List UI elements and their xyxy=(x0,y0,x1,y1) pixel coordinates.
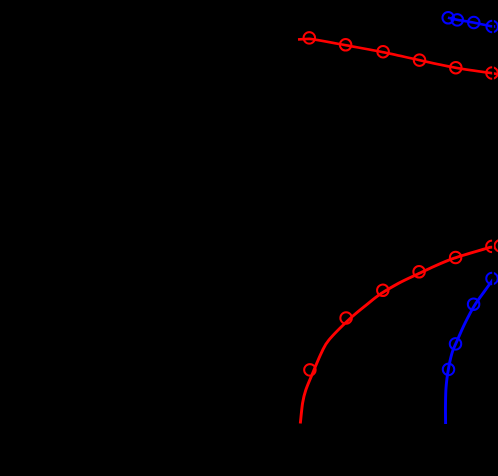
top red marker 2 xyxy=(340,39,352,51)
bottom red marker 2 xyxy=(340,312,352,324)
bottom red marker 3 xyxy=(377,285,389,297)
bottom red marker 5 xyxy=(450,252,462,264)
bottom red overflow marker at right edge xyxy=(495,240,498,252)
top red marker 5 xyxy=(450,62,462,74)
bottom red marker 1 xyxy=(304,364,316,376)
top red marker 6 xyxy=(486,67,498,79)
top blue fit line xyxy=(448,18,495,27)
top blue marker 2 xyxy=(452,14,464,26)
top red marker 1 xyxy=(304,32,316,44)
top blue marker 4 xyxy=(486,21,498,33)
bottom blue marker 1 xyxy=(443,364,455,376)
top blue marker 3 xyxy=(468,17,480,29)
bottom red data markers xyxy=(304,252,461,376)
bottom blue marker 2 xyxy=(450,338,462,350)
bottom red marker 4 xyxy=(413,266,425,278)
top blue data markers xyxy=(442,12,498,32)
bottom red curve xyxy=(300,247,495,423)
bottom blue marker 4 xyxy=(486,273,498,285)
bottom red last marker (clipped at axis) xyxy=(486,241,498,253)
top red marker 4 xyxy=(414,54,426,66)
bottom blue marker 3 xyxy=(468,298,480,310)
black right axis spine overlay xyxy=(492,0,494,476)
top red marker 3 xyxy=(377,46,389,58)
bottom blue data markers xyxy=(443,273,498,375)
top red fit line xyxy=(298,39,498,75)
bottom blue curve xyxy=(445,279,493,424)
top red data markers xyxy=(304,32,498,79)
top blue marker 1 xyxy=(442,12,454,24)
